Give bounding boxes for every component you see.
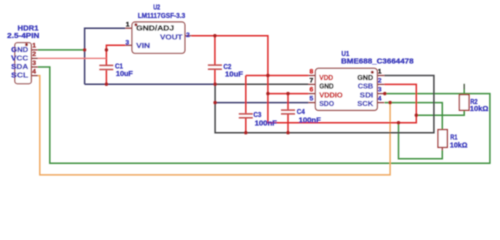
svg-text:SCL: SCL [11, 71, 29, 80]
svg-text:100nF: 100nF [255, 120, 277, 127]
svg-text:GND/ADJ: GND/ADJ [136, 23, 174, 32]
svg-text:10uF: 10uF [116, 71, 133, 78]
svg-text:C4: C4 [297, 109, 305, 116]
svg-text:GND: GND [319, 82, 334, 91]
svg-text:5: 5 [310, 96, 314, 103]
svg-text:2: 2 [378, 77, 382, 84]
svg-text:1: 1 [126, 22, 130, 29]
svg-text:7: 7 [310, 77, 314, 84]
svg-text:3: 3 [378, 87, 382, 94]
svg-text:GND: GND [357, 73, 373, 82]
svg-text:CSB: CSB [358, 82, 374, 91]
svg-text:C2: C2 [223, 64, 231, 71]
svg-text:10uF: 10uF [225, 71, 243, 78]
svg-text:BME688_C3664478: BME688_C3664478 [341, 57, 414, 66]
svg-text:U2: U2 [153, 2, 160, 11]
svg-text:3: 3 [125, 39, 129, 46]
svg-text:SDO: SDO [319, 99, 334, 108]
svg-text:2: 2 [32, 51, 36, 58]
svg-text:C3: C3 [253, 112, 261, 119]
svg-text:R1: R1 [450, 135, 457, 142]
svg-text:8: 8 [310, 69, 314, 76]
svg-text:VDD: VDD [319, 73, 333, 82]
svg-text:2: 2 [186, 32, 190, 39]
svg-text:10kΩ: 10kΩ [470, 106, 489, 113]
svg-text:C1: C1 [115, 64, 123, 71]
svg-text:R2: R2 [470, 99, 478, 106]
svg-text:100nF: 100nF [299, 118, 321, 125]
svg-text:2.5-4PIN: 2.5-4PIN [7, 31, 39, 40]
svg-text:LM1117GSF-3.3: LM1117GSF-3.3 [138, 11, 186, 20]
svg-text:4: 4 [378, 96, 382, 103]
svg-text:1: 1 [378, 69, 382, 76]
svg-text:SCK: SCK [357, 99, 374, 108]
svg-text:1: 1 [32, 43, 36, 50]
svg-text:3: 3 [32, 60, 36, 67]
svg-text:VIN: VIN [136, 41, 150, 50]
svg-text:6: 6 [310, 87, 314, 94]
svg-text:VOUT: VOUT [160, 32, 183, 41]
svg-text:10kΩ: 10kΩ [450, 143, 468, 150]
svg-text:4: 4 [32, 68, 36, 75]
